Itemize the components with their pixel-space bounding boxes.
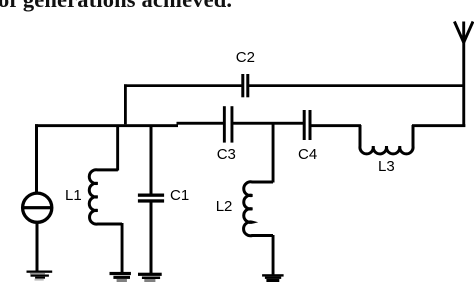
label C4 bbox=[298, 147, 317, 162]
inductor L3 bbox=[360, 125, 413, 154]
wire main bus middle segment bbox=[177, 122, 225, 125]
wire C3 to C4 bbox=[233, 122, 304, 125]
label C2 bbox=[236, 50, 255, 65]
wire C1 bottom vertical bbox=[150, 202, 153, 273]
capacitor C2 bbox=[241, 74, 249, 97]
wire L2 top vertical bbox=[272, 124, 275, 183]
wire source to ground bbox=[36, 223, 39, 272]
ground (L2) bbox=[262, 274, 284, 282]
current source I1 bbox=[23, 193, 52, 222]
wire top C2 bus right bbox=[248, 84, 465, 87]
wire L3 to antenna mast bbox=[412, 124, 465, 127]
label C1 bbox=[170, 188, 189, 203]
label L3 bbox=[378, 159, 395, 174]
wire L1 bottom vertical bbox=[121, 223, 124, 272]
inductor L1 bbox=[89, 170, 122, 224]
wire top C2 bus left bbox=[124, 84, 242, 87]
wire main bus left segment bbox=[35, 124, 178, 127]
wire C1 top vertical bbox=[150, 126, 153, 195]
caption text (clipped at top) bbox=[0, 0, 232, 13]
ground (L1) bbox=[110, 272, 131, 282]
wire corner vertical junction bbox=[124, 84, 127, 124]
ground (source) bbox=[27, 271, 53, 281]
label L2 bbox=[216, 199, 233, 214]
wire source branch vertical bbox=[35, 124, 38, 192]
wire C4 to L3 bbox=[311, 124, 362, 127]
wire L1 top vertical bbox=[116, 126, 119, 171]
wire L2 bottom vertical bbox=[272, 235, 275, 275]
label C3 bbox=[217, 147, 236, 162]
capacitor C4 bbox=[303, 110, 312, 140]
capacitor C1 bbox=[138, 194, 164, 203]
capacitor C3 bbox=[223, 106, 234, 142]
antenna mast bbox=[462, 41, 465, 127]
inductor L2 bbox=[244, 182, 273, 236]
ground (C1) bbox=[138, 273, 162, 282]
antenna bbox=[454, 22, 473, 43]
label L1 bbox=[65, 188, 82, 203]
